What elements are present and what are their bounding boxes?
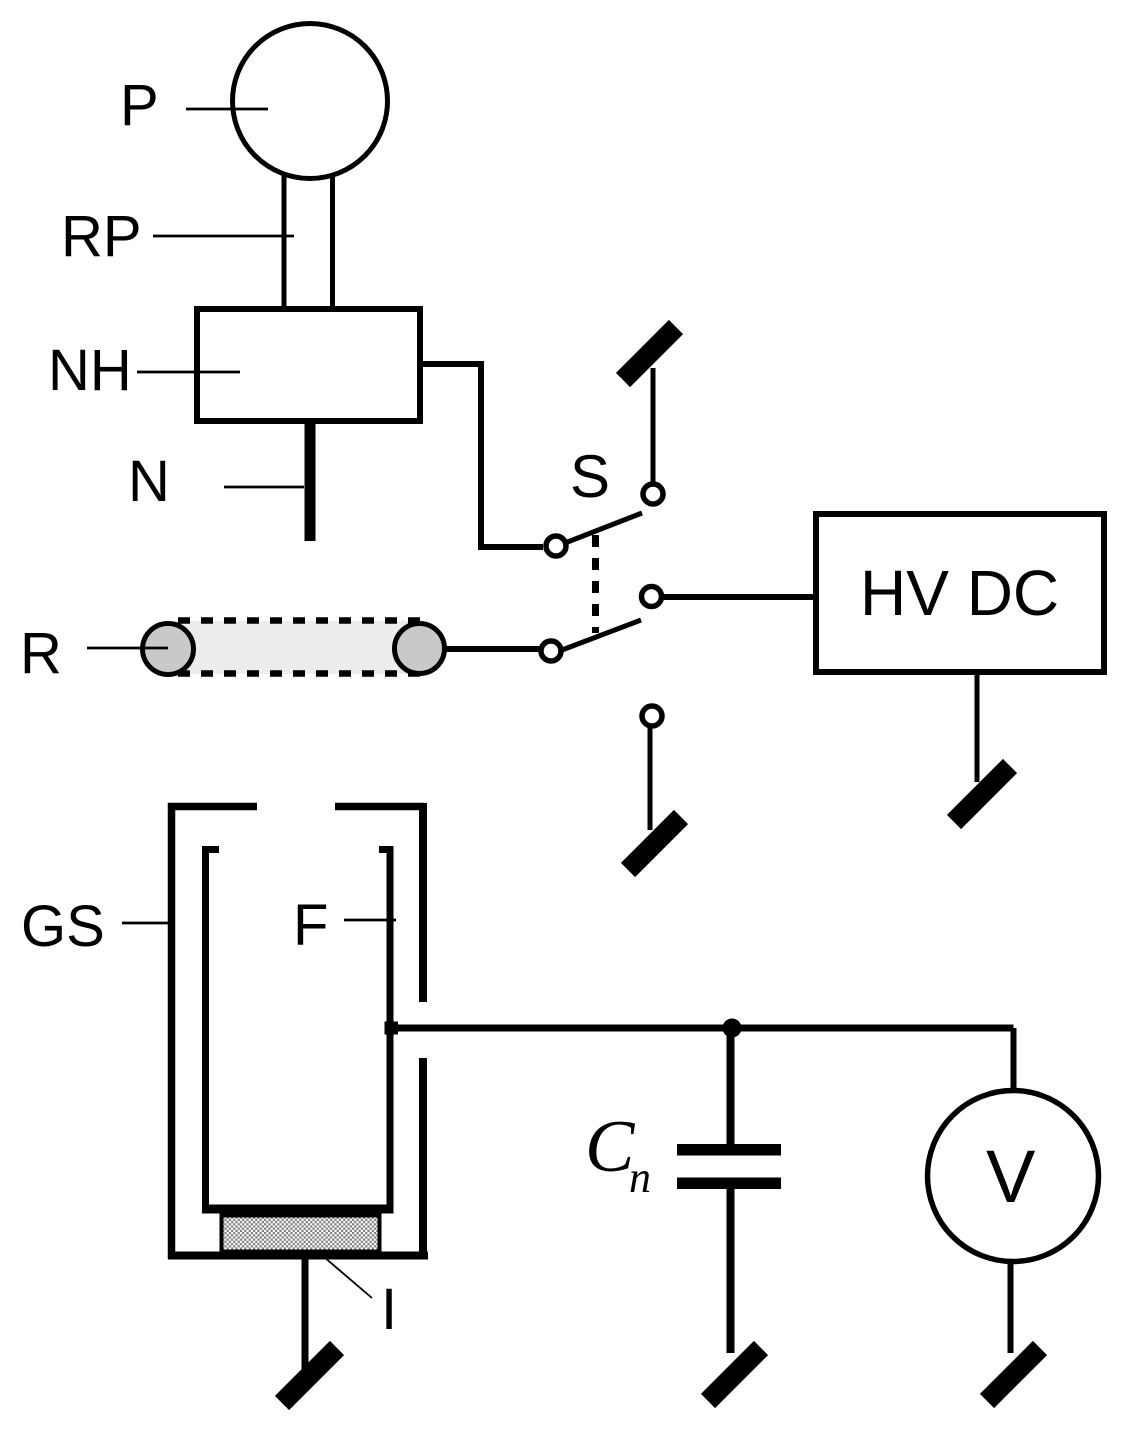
wire NH to switch: [420, 364, 543, 547]
switch S contact lower-left: [541, 641, 561, 661]
capacitor Cn top lead: [727, 1028, 735, 1144]
tube RP: [282, 174, 287, 309]
ground terminal above switch: [623, 327, 676, 380]
wire R to switch: [444, 646, 540, 652]
svg-text:n: n: [629, 1153, 651, 1202]
switch S gang link (dashed): [592, 535, 599, 633]
svg-text:F: F: [293, 893, 328, 958]
capacitor Cn bottom plate: [677, 1178, 781, 1190]
cup F top-left bracket: [202, 846, 219, 853]
capacitor Cn top plate: [677, 1144, 781, 1156]
junction node: [723, 1019, 742, 1038]
switch S contact bottom: [642, 706, 662, 726]
svg-text:S: S: [570, 443, 610, 510]
capacitor Cn bottom lead: [727, 1189, 735, 1353]
leader line NH: [137, 371, 240, 374]
svg-text:NH: NH: [48, 338, 132, 403]
cup F top-right bracket: [379, 846, 394, 853]
vessel GS outer top-right segment: [335, 803, 425, 811]
leader line RP: [153, 235, 294, 238]
ground below HV DC: [954, 766, 1010, 822]
rod R right electrode: [395, 624, 445, 674]
svg-text:GS: GS: [21, 894, 105, 959]
wire pole to HV DC: [662, 594, 814, 600]
switch S upper blade: [565, 513, 642, 543]
ground terminal below switch: [628, 817, 681, 870]
vessel GS outer left wall: [168, 803, 176, 1259]
switch S pole contact: [642, 587, 662, 607]
HV DC box U1: [816, 514, 1104, 672]
vessel GS bottom: [168, 1252, 428, 1260]
wire F to measuring node: [389, 1025, 1014, 1032]
wire HV DC to ground: [975, 675, 980, 782]
wire bottom contact to terminal: [648, 728, 653, 830]
svg-text:P: P: [120, 73, 159, 138]
holder NH: [197, 309, 420, 421]
svg-text:I: I: [381, 1277, 397, 1342]
switch S lower blade: [562, 620, 641, 650]
probe sphere P: [233, 24, 388, 179]
rod R body: [168, 621, 420, 674]
voltmeter bottom lead: [1008, 1261, 1014, 1353]
cup F right wall: [387, 846, 394, 1208]
voltmeter V: [928, 1091, 1099, 1262]
junction tick at cup output: [385, 1022, 399, 1035]
leader line I: [324, 1257, 372, 1298]
leader line P: [186, 108, 268, 111]
needle N: [305, 423, 316, 541]
leader line GS: [122, 922, 170, 925]
insulator I hatched block: [222, 1216, 380, 1252]
wire node to voltmeter: [1011, 1028, 1017, 1092]
svg-text:V: V: [986, 1135, 1036, 1218]
svg-text:N: N: [128, 449, 170, 514]
vessel GS outer top-left segment: [168, 803, 257, 811]
svg-text:RP: RP: [61, 204, 142, 269]
wire vessel to ground: [302, 1259, 309, 1371]
leader line R: [87, 647, 168, 650]
switch S contact upper-left: [546, 536, 566, 556]
vessel GS outer right wall upper: [419, 803, 427, 1002]
wire top contact to terminal: [651, 368, 656, 482]
leader line F: [344, 919, 396, 922]
svg-text:R: R: [20, 621, 62, 686]
cup F bottom: [202, 1205, 394, 1214]
leader line N: [224, 486, 304, 489]
rod R left electrode: [143, 624, 194, 675]
cup F left wall: [202, 846, 209, 1208]
vessel GS outer right wall lower: [419, 1058, 427, 1259]
svg-text:HV DC: HV DC: [860, 557, 1059, 629]
ground below Cn: [708, 1348, 761, 1401]
ground below vessel: [282, 1348, 337, 1403]
ground below voltmeter: [987, 1348, 1040, 1401]
switch S contact top: [643, 484, 663, 504]
